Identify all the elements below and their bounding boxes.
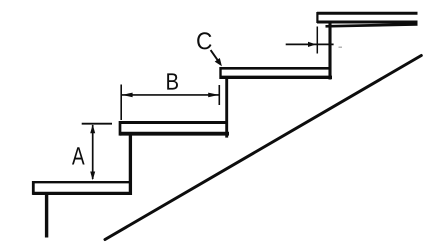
dimension A up arrowhead xyxy=(90,124,95,133)
tread 4 lower double line xyxy=(326,24,418,26)
riser below tread 4 / tread 3 right end xyxy=(328,21,331,80)
tread 1 left end xyxy=(32,181,35,195)
dimension A down arrowhead xyxy=(90,172,95,181)
dimension B left extension line xyxy=(120,85,122,121)
dimension C arrowhead xyxy=(308,42,316,47)
dimension B left arrowhead xyxy=(122,93,133,98)
label C leader arrowhead xyxy=(215,58,222,66)
label C leader line xyxy=(211,50,218,60)
tread 2 bottom edge xyxy=(120,132,229,136)
riser below tread 2 / tread 1 right end xyxy=(129,132,132,195)
dimension C faint tick right of riser xyxy=(339,46,343,48)
dimension B right arrowhead xyxy=(208,93,219,98)
tread 1 bottom edge xyxy=(33,192,131,195)
dimension B right extension line xyxy=(218,85,220,105)
tread 1 top edge xyxy=(32,181,130,183)
dimension C horizontal line xyxy=(286,43,334,45)
label C xyxy=(197,32,211,49)
label B xyxy=(167,73,178,89)
tread 4 bottom edge xyxy=(317,21,418,24)
tread 2 top edge xyxy=(119,121,228,124)
riser leg below tread 1 xyxy=(45,194,48,238)
diagonal stringer line xyxy=(105,56,421,240)
tread 4 left end xyxy=(316,12,318,23)
dimension C extension line xyxy=(316,27,318,54)
dimension A top tick xyxy=(82,123,112,125)
tread 3 bottom edge xyxy=(221,76,332,79)
dimension A vertical line xyxy=(92,125,94,179)
tread 3 left end xyxy=(219,67,221,79)
tread 4 top edge xyxy=(317,12,418,15)
tread 3 top edge xyxy=(220,67,332,70)
label A xyxy=(72,147,85,164)
tread 2 left end xyxy=(119,121,122,136)
riser below tread 3 / tread 2 right end xyxy=(225,76,228,138)
dimension B horizontal line xyxy=(122,94,219,96)
